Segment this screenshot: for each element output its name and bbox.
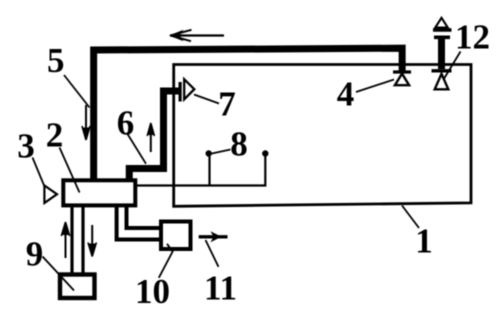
svg-text:6: 6 bbox=[117, 104, 135, 143]
svg-text:5: 5 bbox=[47, 41, 65, 80]
svg-text:10: 10 bbox=[135, 272, 170, 311]
svg-text:12: 12 bbox=[455, 18, 490, 57]
svg-text:7: 7 bbox=[218, 85, 236, 124]
svg-text:4: 4 bbox=[337, 75, 355, 114]
svg-text:1: 1 bbox=[415, 222, 433, 261]
svg-text:8: 8 bbox=[230, 125, 248, 164]
svg-text:11: 11 bbox=[204, 269, 237, 308]
svg-text:2: 2 bbox=[46, 116, 64, 155]
svg-text:3: 3 bbox=[17, 127, 35, 166]
svg-text:9: 9 bbox=[26, 235, 44, 274]
